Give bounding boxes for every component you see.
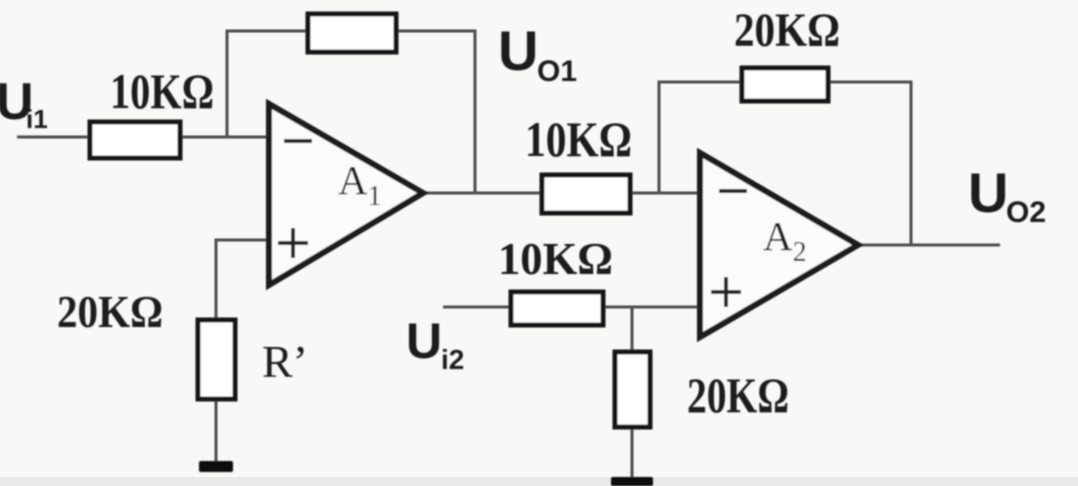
wire A2 output bbox=[855, 244, 1000, 247]
wire A1 noninverting input bbox=[216, 240, 269, 322]
svg-text:U: U bbox=[406, 313, 442, 369]
resistor feedback A1 bbox=[308, 14, 396, 52]
svg-text:i1: i1 bbox=[26, 104, 48, 134]
wire Ui1 input to A1 inverting input bbox=[17, 136, 269, 139]
wire grounding resistor top bbox=[631, 307, 634, 352]
wire grounding resistor to ground bbox=[631, 427, 634, 481]
svg-text:10KΩ: 10KΩ bbox=[498, 233, 613, 284]
svg-text:U: U bbox=[968, 161, 1008, 224]
svg-text:R’: R’ bbox=[262, 336, 308, 387]
op-amp A1 bbox=[269, 104, 423, 285]
wire A1 output to A2 inverting input bbox=[425, 192, 700, 195]
resistor 10K input Ui2 bbox=[511, 292, 603, 325]
svg-text:U: U bbox=[498, 19, 538, 82]
op-amp A2 bbox=[700, 153, 858, 337]
svg-text:O1: O1 bbox=[537, 55, 577, 88]
op-amp A1 plus sign bbox=[278, 228, 308, 258]
resistor 20K feedback A2 bbox=[742, 68, 828, 101]
resistor 10K input R1 bbox=[90, 122, 180, 158]
resistor 10K middle bbox=[542, 175, 630, 213]
wire Ui2 input to A2 noninverting input bbox=[443, 306, 700, 309]
resistor 20K grounding bbox=[615, 352, 650, 427]
op-amp A2 plus sign bbox=[711, 277, 741, 307]
wire A1 feedback loop bbox=[227, 31, 475, 193]
svg-text:20KΩ: 20KΩ bbox=[57, 286, 163, 337]
wire R' to ground bbox=[215, 398, 218, 463]
svg-text:i2: i2 bbox=[441, 344, 464, 375]
svg-text:O2: O2 bbox=[1006, 196, 1046, 229]
ground for R' bbox=[199, 461, 233, 472]
ground for 20K grounding resistor bbox=[611, 477, 653, 486]
svg-text:10KΩ: 10KΩ bbox=[110, 63, 214, 119]
svg-text:20KΩ: 20KΩ bbox=[734, 4, 840, 57]
op-amp A2 minus sign bbox=[719, 189, 747, 193]
svg-text:20KΩ: 20KΩ bbox=[687, 367, 789, 423]
op-amp A1 minus sign bbox=[284, 139, 312, 143]
svg-text:10KΩ: 10KΩ bbox=[525, 111, 632, 167]
wire A2 feedback loop bbox=[659, 82, 911, 245]
bottom page-edge shading bbox=[0, 477, 1078, 486]
resistor R' bbox=[198, 320, 235, 399]
